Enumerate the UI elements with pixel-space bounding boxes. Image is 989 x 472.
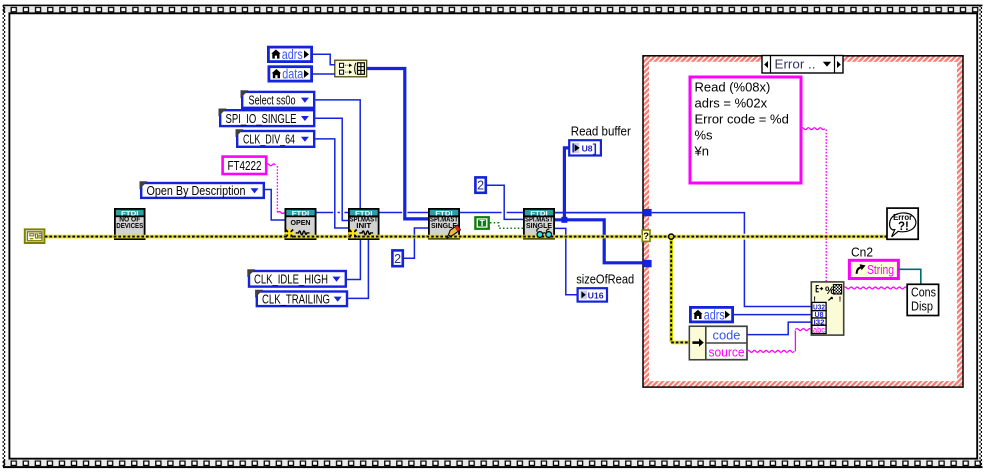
svg-text:Open By Description: Open By Description <box>147 183 246 198</box>
global variable data (write) <box>269 67 312 82</box>
svg-text:T: T <box>479 218 485 228</box>
wire READ to Read buffer and tunnel (data array) <box>555 220 643 263</box>
subVI FTDI OPEN <box>285 208 317 240</box>
wire String refnum to Cons Disp <box>898 269 920 284</box>
svg-text:¥n: ¥n <box>694 144 709 159</box>
svg-text:FT4222: FT4222 <box>228 158 262 173</box>
subVI FTDI SPI MASTER INIT <box>348 208 380 240</box>
numeric constant 2 (lower) <box>392 250 402 266</box>
svg-text:CLK_TRAILING: CLK_TRAILING <box>262 291 330 306</box>
svg-text:!: ! <box>839 295 842 304</box>
wire Select ss0o to INIT top <box>315 100 360 208</box>
svg-text:String: String <box>867 262 894 277</box>
enum constant CLK_IDLE_HIGH <box>247 269 345 286</box>
wire build array to write node (byte array) <box>367 69 428 219</box>
svg-text:adrs = %02x: adrs = %02x <box>695 96 768 111</box>
svg-text:OPEN: OPEN <box>291 220 311 227</box>
wire source to Format abc <box>747 350 794 352</box>
svg-text:source: source <box>709 344 745 359</box>
svg-text:2: 2 <box>477 179 484 193</box>
svg-text:U16: U16 <box>588 290 604 300</box>
tunnel (unused, bottom) <box>643 260 651 267</box>
svg-text:Read buffer: Read buffer <box>571 123 632 138</box>
enum constant CLK_DIV_64 <box>236 129 315 147</box>
wire tunnel to Format U32 <box>652 213 745 234</box>
case structure border (error case) <box>646 59 960 384</box>
svg-text:INIT: INIT <box>356 223 372 230</box>
svg-text:Cn2: Cn2 <box>851 245 873 260</box>
string constant format (Read %08x...) <box>690 77 801 183</box>
error wire in case <box>650 235 887 239</box>
svg-text:code: code <box>713 328 741 343</box>
svg-text:Select ss0o: Select ss0o <box>249 92 296 107</box>
wire CLK_TRAILING to INIT bottom <box>348 240 368 298</box>
error cluster constant <box>25 229 45 243</box>
wire data to build array <box>313 73 335 75</box>
OPEN node glyphs <box>285 229 310 239</box>
svg-text:Read (%08x): Read (%08x) <box>695 80 771 95</box>
left zigzag edge <box>2 5 4 468</box>
wire format string to Format node <box>801 128 825 130</box>
enum constant Select ss0o <box>241 90 315 108</box>
wire Open By Description to OPEN <box>265 190 285 221</box>
svg-text:CLK_IDLE_HIGH: CLK_IDLE_HIGH <box>254 271 328 286</box>
wire SPI_IO_SINGLE to INIT <box>315 118 348 220</box>
global variable adrs (read, in case) <box>690 307 732 322</box>
enum constant SPI_IO_SINGLE <box>219 109 315 127</box>
wire 2 (lower) to WRITE <box>404 228 428 258</box>
wire OPEN to INIT (handle) <box>317 212 334 214</box>
wire FT4222 to OPEN (string) <box>266 164 275 166</box>
wire WRITE to READ (handle) <box>460 212 502 214</box>
right zigzag edge <box>979 5 981 468</box>
wire READ to sizeOfRead <box>555 228 577 294</box>
refnum constant String (Cn2) <box>849 260 898 278</box>
wire Format output to Cons Disp <box>844 287 907 289</box>
boolean constant T <box>474 216 490 230</box>
global variable adrs (write) <box>268 47 311 62</box>
svg-text:%s: %s <box>695 128 714 143</box>
enum constant Open By Description <box>140 181 264 198</box>
subVI Cons Disp <box>907 284 938 315</box>
film strip band bottom <box>3 460 983 467</box>
wire 2 (upper) to READ <box>487 185 523 219</box>
wire T to READ (boolean) <box>490 223 523 229</box>
tunnel (read data, top) <box>643 209 651 216</box>
numeric constant 2 (upper) <box>475 177 485 192</box>
svg-text:Error ..: Error .. <box>775 58 816 72</box>
svg-text:FTDI: FTDI <box>292 210 310 217</box>
WRITE node pencil glyph <box>447 225 460 238</box>
wire READ to case tunnel (handle) <box>555 212 643 214</box>
svg-text:abc: abc <box>813 325 825 334</box>
svg-text:adrs: adrs <box>704 307 725 322</box>
wire INIT to WRITE (handle) <box>380 212 403 214</box>
svg-text:DEVICES: DEVICES <box>116 223 143 230</box>
svg-text:data: data <box>282 67 303 82</box>
wire adrs to build array <box>313 54 335 65</box>
svg-text:?!: ?! <box>898 221 909 233</box>
svg-text:Error code = %d: Error code = %d <box>695 112 789 127</box>
case selector label <box>762 56 843 74</box>
build array node <box>335 60 367 77</box>
indicator Read buffer U8 array <box>569 140 601 155</box>
error tunnel ? <box>642 230 650 241</box>
error wire main run <box>45 235 642 239</box>
svg-text:2: 2 <box>394 252 401 266</box>
wire CLK_DIV_64 to INIT <box>315 139 348 228</box>
unbundle by name (code, source) <box>689 326 747 359</box>
wire code to Format I32 <box>747 322 811 335</box>
subVI FTDI SPI MASTER SINGLE read <box>523 208 555 240</box>
string constant FT4222 <box>223 157 267 174</box>
subVI FTDI NO OF DEVICES <box>114 208 146 240</box>
format into string node <box>811 282 843 335</box>
subVI FTDI SPI MASTER SINGLE write <box>428 208 460 240</box>
svg-text:?: ? <box>643 231 649 242</box>
READ node glasses glyph <box>537 229 552 238</box>
wire CLK_IDLE_HIGH to INIT bottom <box>347 240 360 280</box>
enum constant CLK_TRAILING <box>255 290 347 307</box>
svg-text:Cons: Cons <box>911 286 936 300</box>
outer frame top line <box>3 5 983 7</box>
svg-text:sizeOfRead: sizeOfRead <box>576 272 634 287</box>
INIT node glyphs <box>348 229 373 239</box>
film strip band top <box>3 6 983 12</box>
svg-text:Disp: Disp <box>911 300 933 314</box>
wire adrs to Format U8 <box>734 314 811 316</box>
indicator sizeOfRead U16 <box>578 288 607 301</box>
subVI Error?! (simple error handler) <box>887 208 918 239</box>
svg-text:SPI_IO_SINGLE: SPI_IO_SINGLE <box>226 111 297 126</box>
svg-text:CLK_DIV_64: CLK_DIV_64 <box>243 132 295 147</box>
svg-text:adrs: adrs <box>282 47 303 62</box>
svg-text:U8: U8 <box>582 144 593 154</box>
outer frame bottom line <box>3 466 983 468</box>
svg-text:]: ] <box>593 141 597 155</box>
